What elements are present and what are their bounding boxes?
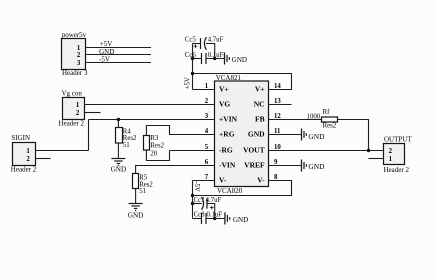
svg-text:7: 7 bbox=[205, 174, 209, 181]
svg-text:Header 3: Header 3 bbox=[62, 69, 88, 77]
svg-text:NC: NC bbox=[254, 100, 265, 109]
svg-text:+RG: +RG bbox=[219, 130, 235, 139]
svg-text:Cc6: Cc6 bbox=[185, 52, 197, 59]
svg-text:Vg con: Vg con bbox=[62, 89, 83, 97]
svg-text:5: 5 bbox=[205, 144, 209, 151]
svg-text:GND: GND bbox=[128, 212, 144, 220]
svg-text:4.7uF: 4.7uF bbox=[208, 36, 224, 43]
svg-text:14: 14 bbox=[274, 83, 281, 90]
svg-text:10: 10 bbox=[274, 144, 281, 151]
svg-text:Header 2: Header 2 bbox=[11, 166, 37, 174]
svg-text:1: 1 bbox=[77, 45, 81, 52]
svg-text:Res2: Res2 bbox=[150, 143, 164, 150]
svg-text:1000: 1000 bbox=[307, 113, 321, 120]
svg-text:51: 51 bbox=[123, 142, 130, 149]
svg-text:+5V: +5V bbox=[100, 40, 113, 48]
svg-text:OUTPUT: OUTPUT bbox=[384, 135, 412, 143]
svg-text:Cc7: Cc7 bbox=[194, 197, 206, 204]
svg-text:GND: GND bbox=[232, 56, 247, 64]
svg-text:9: 9 bbox=[274, 159, 278, 166]
svg-text:4.7uF: 4.7uF bbox=[206, 197, 222, 204]
svg-text:VCA821: VCA821 bbox=[216, 74, 242, 82]
svg-text:Rf: Rf bbox=[323, 109, 331, 116]
svg-text:-5V: -5V bbox=[193, 181, 200, 192]
svg-text:+VIN: +VIN bbox=[219, 115, 238, 124]
svg-text:11: 11 bbox=[274, 128, 281, 135]
svg-text:1: 1 bbox=[26, 148, 30, 155]
svg-text:-RG: -RG bbox=[219, 146, 233, 155]
svg-text:power5v: power5v bbox=[62, 31, 87, 39]
svg-text:+5V: +5V bbox=[185, 77, 192, 89]
svg-text:51: 51 bbox=[139, 188, 146, 195]
svg-text:V-: V- bbox=[219, 176, 227, 185]
svg-text:8: 8 bbox=[274, 174, 278, 181]
svg-text:12: 12 bbox=[274, 113, 281, 120]
svg-text:Res2: Res2 bbox=[123, 135, 137, 142]
svg-text:GND: GND bbox=[308, 162, 325, 171]
svg-text:6: 6 bbox=[205, 159, 209, 166]
svg-text:V+: V+ bbox=[219, 85, 229, 94]
svg-text:Header 2: Header 2 bbox=[384, 166, 410, 174]
svg-text:0.1uF: 0.1uF bbox=[207, 212, 223, 219]
svg-text:1: 1 bbox=[205, 83, 209, 90]
svg-text:GND: GND bbox=[111, 166, 127, 174]
svg-text:4: 4 bbox=[205, 128, 209, 135]
svg-text:1: 1 bbox=[389, 156, 393, 163]
svg-text:13: 13 bbox=[274, 98, 281, 105]
svg-text:GND: GND bbox=[233, 216, 248, 224]
svg-text:-VIN: -VIN bbox=[219, 161, 236, 170]
svg-text:GND: GND bbox=[248, 130, 265, 139]
svg-text:FB: FB bbox=[255, 115, 265, 124]
svg-text:2: 2 bbox=[26, 156, 30, 163]
svg-text:2: 2 bbox=[77, 52, 81, 59]
svg-text:0.1uF: 0.1uF bbox=[208, 52, 224, 59]
svg-text:V-: V- bbox=[257, 176, 265, 185]
svg-text:SIGIN: SIGIN bbox=[11, 134, 30, 142]
svg-text:-5V: -5V bbox=[99, 56, 110, 64]
svg-text:2: 2 bbox=[389, 148, 393, 155]
svg-text:GND: GND bbox=[308, 132, 325, 141]
svg-text:3: 3 bbox=[77, 60, 81, 67]
svg-text:R3: R3 bbox=[150, 135, 159, 142]
svg-text:V+: V+ bbox=[255, 85, 265, 94]
svg-text:VOUT: VOUT bbox=[243, 146, 265, 155]
svg-text:20: 20 bbox=[150, 151, 157, 158]
svg-text:VREF: VREF bbox=[244, 161, 265, 170]
svg-text:1: 1 bbox=[76, 102, 80, 109]
svg-text:2: 2 bbox=[76, 110, 80, 117]
svg-text:3: 3 bbox=[205, 113, 209, 120]
svg-text:Header 2: Header 2 bbox=[59, 119, 85, 127]
svg-text:Res2: Res2 bbox=[323, 123, 337, 130]
svg-text:VG: VG bbox=[219, 100, 230, 109]
svg-text:Cc5: Cc5 bbox=[185, 36, 197, 43]
svg-text:Cc8: Cc8 bbox=[194, 212, 206, 219]
svg-text:VCA820: VCA820 bbox=[217, 187, 243, 195]
svg-text:2: 2 bbox=[205, 98, 209, 105]
